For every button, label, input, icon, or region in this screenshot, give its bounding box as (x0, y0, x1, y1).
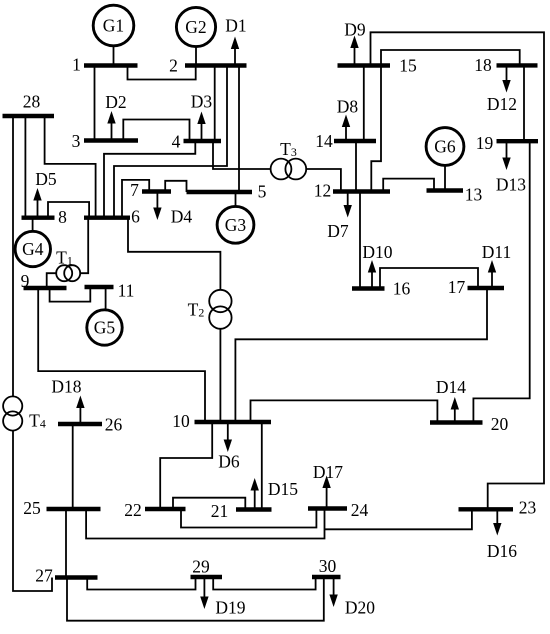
svg-text:18: 18 (474, 55, 492, 75)
svg-text:D17: D17 (313, 462, 343, 482)
svg-text:19: 19 (476, 133, 494, 153)
svg-text:9: 9 (21, 271, 30, 291)
svg-text:G5: G5 (94, 318, 116, 338)
svg-text:D10: D10 (362, 242, 392, 262)
svg-text:4: 4 (172, 132, 181, 152)
svg-text:D11: D11 (482, 242, 512, 262)
svg-text:D9: D9 (344, 20, 366, 40)
svg-text:16: 16 (393, 279, 411, 299)
svg-text:D1: D1 (225, 16, 246, 36)
svg-text:5: 5 (258, 182, 267, 202)
svg-text:G1: G1 (103, 16, 124, 36)
svg-text:21: 21 (211, 501, 229, 521)
svg-text:D16: D16 (487, 541, 517, 561)
svg-text:11: 11 (118, 281, 135, 301)
svg-text:G3: G3 (225, 215, 247, 235)
svg-text:G4: G4 (22, 239, 44, 259)
svg-text:D13: D13 (496, 175, 526, 195)
svg-text:26: 26 (105, 415, 123, 435)
svg-text:28: 28 (23, 92, 41, 112)
svg-text:10: 10 (172, 411, 190, 431)
svg-text:14: 14 (315, 131, 333, 151)
svg-text:27: 27 (35, 566, 53, 586)
svg-text:D4: D4 (171, 207, 193, 227)
svg-text:G2: G2 (185, 17, 206, 37)
svg-text:8: 8 (58, 207, 67, 227)
svg-text:D8: D8 (337, 97, 359, 117)
svg-text:D12: D12 (487, 94, 517, 114)
svg-text:6: 6 (131, 207, 140, 227)
svg-text:25: 25 (23, 498, 41, 518)
svg-text:D18: D18 (51, 377, 81, 397)
svg-text:22: 22 (124, 500, 142, 520)
svg-text:24: 24 (351, 500, 369, 520)
svg-text:D2: D2 (105, 92, 126, 112)
svg-text:12: 12 (314, 181, 332, 201)
svg-text:D15: D15 (268, 479, 298, 499)
svg-text:13: 13 (465, 185, 483, 205)
svg-text:3: 3 (72, 131, 81, 151)
svg-text:D7: D7 (327, 221, 349, 241)
svg-text:D5: D5 (35, 169, 57, 189)
svg-text:D19: D19 (215, 598, 245, 618)
svg-text:29: 29 (192, 557, 210, 577)
svg-text:D6: D6 (218, 452, 240, 472)
svg-text:20: 20 (491, 414, 509, 434)
svg-text:1: 1 (72, 55, 81, 75)
svg-text:23: 23 (519, 498, 537, 518)
svg-text:17: 17 (448, 277, 466, 297)
svg-text:D3: D3 (191, 92, 213, 112)
svg-text:15: 15 (399, 56, 417, 76)
svg-text:30: 30 (319, 556, 337, 576)
svg-text:7: 7 (130, 180, 139, 200)
svg-text:D20: D20 (345, 598, 375, 618)
svg-text:G6: G6 (434, 137, 456, 157)
svg-text:2: 2 (169, 56, 178, 76)
svg-text:D14: D14 (436, 377, 466, 397)
